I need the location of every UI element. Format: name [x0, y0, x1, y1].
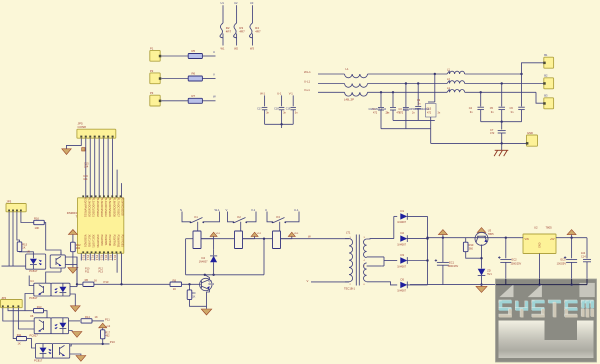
- wire: [228, 212, 234, 222]
- capacitor C14: [581, 252, 591, 262]
- wire: [76, 257, 78, 287]
- diode D4: [199, 249, 217, 275]
- svg-text:W3: W3: [250, 46, 254, 50]
- wire: [162, 55, 189, 57]
- wire: [281, 238, 350, 240]
- svg-text:PC817: PC817: [30, 334, 39, 338]
- capacitor EC1: [435, 259, 459, 268]
- svg-text:PC817: PC817: [29, 296, 38, 300]
- wire: [70, 343, 110, 345]
- svg-text:EC1: EC1: [449, 260, 455, 264]
- logo watermark: [496, 279, 597, 362]
- svg-text:LT1: LT1: [346, 231, 351, 235]
- wire: [367, 265, 382, 267]
- resistor R5: [188, 49, 202, 59]
- svg-text:P2: P2: [150, 69, 154, 73]
- wire: [368, 73, 448, 75]
- resistor R6: [83, 278, 97, 286]
- wire: [417, 84, 419, 106]
- node J28: [570, 283, 572, 285]
- svg-text:W-L1: W-L1: [304, 70, 311, 74]
- wire: [392, 110, 394, 120]
- wire: [20, 251, 34, 254]
- capacitor EC2: [498, 256, 521, 265]
- wire: [27, 339, 36, 348]
- wire: [243, 238, 255, 240]
- wire: [121, 183, 123, 198]
- power VD1: [210, 232, 221, 239]
- wire: [18, 308, 34, 329]
- wire: [98, 253, 100, 260]
- wire: [17, 212, 20, 242]
- svg-text:K2: K2: [237, 215, 241, 219]
- svg-text:R6: R6: [85, 278, 89, 282]
- svg-text:7805: 7805: [546, 225, 553, 229]
- wire: [571, 262, 573, 284]
- svg-text:U3: U3: [250, 1, 254, 5]
- svg-text:U-1: U-1: [277, 92, 282, 96]
- resistor R9: [187, 290, 196, 300]
- svg-text:C4: C4: [469, 106, 473, 110]
- svg-text:4R7: 4R7: [239, 30, 245, 34]
- optocoupler U6: [30, 314, 52, 338]
- resistor R16: [34, 216, 45, 229]
- svg-text:U3: U3: [488, 228, 492, 232]
- svg-text:1K: 1K: [192, 294, 195, 298]
- node J19: [426, 237, 428, 239]
- diode U6 LED: [51, 318, 69, 334]
- wire: [8, 308, 33, 311]
- wire: [89, 138, 91, 198]
- wire: [481, 245, 483, 269]
- wire: [571, 238, 573, 259]
- svg-text:C18: C18: [274, 108, 279, 111]
- wire: [381, 128, 431, 130]
- svg-text:1N4007: 1N4007: [397, 221, 406, 224]
- wire: [13, 308, 16, 339]
- svg-text:B2: B2: [544, 74, 548, 78]
- wire: [481, 121, 522, 123]
- svg-text:P1.1: P1.1: [86, 255, 90, 261]
- svg-text:U6: U6: [30, 314, 34, 318]
- wire: [44, 223, 61, 255]
- svg-text:100/25V: 100/25V: [557, 263, 567, 266]
- svg-text:+5V: +5V: [550, 238, 555, 241]
- wire: [243, 238, 273, 240]
- node J14: [520, 73, 522, 75]
- diode ZD: [478, 269, 493, 276]
- svg-text:1K: 1K: [94, 279, 97, 283]
- capacitor C7: [490, 128, 506, 135]
- wire: [162, 78, 189, 80]
- node clutter: [369, 108, 441, 115]
- svg-text:B1: B1: [544, 53, 548, 57]
- svg-text:P1.4/ADC4/SEG4: P1.4/ADC4/SEG4: [104, 197, 107, 217]
- wire: [480, 110, 482, 122]
- svg-text:1K: 1K: [95, 315, 98, 319]
- svg-text:P1.3: P1.3: [95, 255, 99, 261]
- wire: [263, 239, 265, 275]
- thermistor R4: [249, 1, 261, 50]
- optocoupler U4: [29, 279, 51, 300]
- ground: [62, 149, 72, 155]
- transistor U7b: [53, 344, 70, 359]
- wire: [408, 260, 428, 262]
- wire: [69, 330, 73, 333]
- svg-text:4R7: 4R7: [255, 30, 261, 34]
- svg-text:C7: C7: [490, 128, 494, 132]
- node J6: [212, 274, 214, 276]
- wire: [394, 215, 397, 217]
- node J28b: [570, 283, 572, 285]
- inductor L3: [447, 78, 465, 83]
- optocoupler U5: [26, 251, 46, 274]
- wire: [380, 110, 382, 129]
- wire: [189, 284, 191, 290]
- wire: [185, 239, 187, 275]
- wire: [67, 138, 82, 148]
- wire: [77, 283, 82, 285]
- wire: [281, 95, 283, 106]
- power VD2: [251, 232, 262, 239]
- wire: [203, 212, 219, 222]
- node J7: [263, 238, 265, 240]
- power VD3: [288, 232, 299, 239]
- relay coil K3: [273, 231, 281, 249]
- node J9: [380, 91, 382, 93]
- svg-text:+12: +12: [106, 324, 111, 328]
- wire: [442, 265, 444, 284]
- wire: [393, 119, 435, 121]
- svg-text:D4: D4: [202, 256, 206, 260]
- ground: [476, 285, 487, 293]
- svg-text:104: 104: [84, 166, 89, 169]
- wire: [281, 110, 283, 125]
- resistor R11: [17, 333, 27, 345]
- svg-text:R6: R6: [192, 72, 196, 76]
- connector JP3: [6, 199, 26, 212]
- transistor U3: [475, 228, 494, 245]
- resistor R14: [81, 315, 98, 323]
- svg-text:VSS/GND1: VSS/GND1: [83, 235, 86, 248]
- wire: [92, 320, 104, 322]
- wire: [318, 91, 345, 93]
- wire: [368, 91, 448, 93]
- wire: [190, 300, 207, 307]
- svg-text:360: 360: [469, 246, 474, 250]
- capacitor C16: [83, 175, 88, 181]
- wire: [292, 95, 294, 106]
- capacitor C2: [387, 108, 397, 115]
- wire: [203, 100, 216, 102]
- svg-text:1N4007: 1N4007: [199, 261, 208, 264]
- wire: [496, 284, 587, 286]
- svg-text:P2.0: P2.0: [99, 255, 103, 261]
- diode D1: [397, 209, 407, 224]
- capacitor C6: [510, 106, 525, 114]
- svg-text:W2: W2: [234, 46, 238, 50]
- wire: [501, 84, 503, 107]
- node J20: [426, 259, 428, 261]
- wire: [265, 123, 294, 125]
- capacitor C5: [490, 106, 505, 114]
- svg-text:P1.1/ADC1/SEG1: P1.1/ADC1/SEG1: [92, 197, 95, 217]
- wire: [246, 212, 256, 222]
- capacitor C4: [469, 106, 484, 114]
- wire: [72, 252, 74, 265]
- ground: [70, 306, 80, 312]
- inductor L1: [344, 67, 368, 101]
- svg-text:PC817: PC817: [34, 358, 43, 362]
- wire: [102, 339, 104, 344]
- wire: [383, 257, 385, 266]
- wire: [12, 212, 14, 266]
- node J12: [417, 82, 419, 84]
- svg-text:CON8: CON8: [78, 125, 87, 129]
- capacitor C17: [257, 107, 269, 114]
- op-amp U2: [523, 225, 556, 253]
- connector B3: [543, 94, 553, 109]
- wire: [505, 238, 507, 259]
- svg-text:P3.5/TIM1: P3.5/TIM1: [112, 235, 115, 247]
- wire: [408, 284, 428, 286]
- wire: [89, 253, 91, 260]
- ground: [72, 332, 82, 338]
- svg-text:W-1: W-1: [260, 92, 265, 96]
- svg-text:P3.3/INT1: P3.3/INT1: [104, 235, 107, 247]
- svg-text:P11: P11: [105, 318, 110, 322]
- wire: [44, 311, 48, 318]
- capacitor C3: [399, 108, 409, 115]
- power VCC2: [438, 230, 447, 238]
- svg-text:406C10PM04P840AC20: 406C10PM04P840AC20: [403, 108, 430, 111]
- wire: [197, 222, 199, 231]
- svg-text:R7: R7: [192, 94, 196, 98]
- svg-text:1000/16V: 1000/16V: [448, 265, 459, 268]
- svg-text:P2.2: P2.2: [108, 255, 112, 261]
- capacitor C19: [286, 107, 298, 114]
- node J23: [480, 257, 482, 259]
- svg-text:EC3: EC3: [560, 258, 566, 262]
- svg-text:C5: C5: [490, 106, 494, 110]
- wire: [408, 215, 428, 217]
- node J1: [76, 283, 78, 285]
- svg-text:1K: 1K: [22, 246, 25, 250]
- svg-text:N: N: [180, 208, 182, 212]
- inductor L2: [447, 69, 465, 74]
- wire: [94, 253, 96, 260]
- connector P1: [150, 46, 162, 61]
- wire: [46, 272, 61, 283]
- node J5: [204, 274, 206, 276]
- wire: [434, 74, 436, 102]
- wire: [281, 124, 283, 128]
- node J22: [442, 237, 444, 239]
- wire: [442, 238, 444, 262]
- wire: [318, 83, 345, 85]
- wire: [393, 216, 395, 238]
- resistor R7: [188, 94, 202, 104]
- wire: [281, 238, 292, 240]
- capacitor C1: [373, 108, 385, 115]
- power VCC3: [567, 230, 576, 238]
- wire: [382, 265, 384, 267]
- svg-text:472: 472: [427, 112, 432, 115]
- transistor Q4: [200, 278, 215, 290]
- svg-text:P3.0/RXD/SEG8: P3.0/RXD/SEG8: [121, 197, 124, 216]
- diode D3: [397, 253, 407, 268]
- svg-text:JP3: JP3: [6, 199, 11, 203]
- svg-text:P1.0: P1.0: [82, 255, 86, 261]
- svg-text:P2.3: P2.3: [113, 255, 117, 261]
- svg-text:472: 472: [397, 112, 402, 115]
- wire: [98, 138, 100, 198]
- svg-text:W1: W1: [221, 46, 225, 50]
- svg-text:P1.6/ADC6/SEG6: P1.6/ADC6/SEG6: [112, 197, 115, 217]
- wire: [427, 216, 429, 284]
- svg-text:U2: U2: [234, 1, 238, 5]
- svg-text:1K: 1K: [18, 341, 21, 345]
- ground: [68, 265, 78, 274]
- wire: [8, 212, 10, 266]
- wire: [586, 279, 588, 285]
- wire: [112, 138, 114, 198]
- node J27: [570, 237, 572, 239]
- resistor R12: [71, 242, 82, 252]
- wire: [586, 262, 588, 285]
- svg-text:R10: R10: [469, 243, 474, 247]
- wire: [480, 92, 482, 106]
- wire: [465, 73, 522, 75]
- svg-text:P13: P13: [99, 271, 104, 274]
- wire: [29, 276, 34, 286]
- svg-text:P3.6/WRB1: P3.6/WRB1: [117, 235, 120, 248]
- wire: [556, 237, 587, 239]
- connector JP5: [77, 122, 116, 139]
- wire: [264, 110, 266, 125]
- wire: [285, 212, 299, 222]
- relay coil K2: [235, 231, 243, 249]
- wire: [65, 264, 77, 266]
- capacitor C15: [84, 163, 89, 169]
- wire: [522, 237, 523, 239]
- wire: [481, 276, 483, 285]
- svg-text:RST/VPP21: RST/VPP21: [96, 235, 99, 249]
- wire: [405, 84, 407, 108]
- wire: [201, 238, 214, 240]
- svg-text:TEC1B-1: TEC1B-1: [344, 286, 356, 290]
- wire: [465, 91, 536, 93]
- power VCC: [68, 230, 77, 243]
- svg-text:P1.2/ADC2/SEG2: P1.2/ADC2/SEG2: [96, 197, 99, 217]
- wire: [430, 129, 432, 144]
- wire: [186, 274, 264, 276]
- wire: [103, 253, 105, 260]
- svg-text:7805: 7805: [488, 232, 494, 236]
- wire: [392, 92, 394, 107]
- node J24: [480, 283, 482, 285]
- connector GND: [526, 131, 538, 146]
- connector JP4: [1, 296, 23, 308]
- wire: [94, 138, 96, 198]
- svg-text:L4B_3P: L4B_3P: [344, 98, 354, 102]
- svg-text:D2: D2: [401, 231, 405, 235]
- node J16: [480, 91, 482, 93]
- node J3: [102, 343, 104, 345]
- diode D2: [397, 231, 407, 246]
- wire: [70, 294, 75, 306]
- wire: [521, 110, 523, 122]
- node pad: [82, 148, 85, 151]
- node P10: [85, 267, 90, 273]
- svg-text:1N4007: 1N4007: [397, 265, 406, 268]
- svg-text:P3.4/TIM0: P3.4/TIM0: [108, 235, 111, 247]
- wire: [65, 257, 77, 287]
- capacitor C18: [274, 107, 286, 114]
- inductor L4: [447, 87, 465, 92]
- svg-text:R5: R5: [192, 49, 196, 53]
- ground: [76, 356, 86, 362]
- relay switch K2: [233, 215, 248, 223]
- wire: [70, 286, 77, 288]
- svg-text:L1: L1: [346, 67, 350, 71]
- wire: [417, 109, 419, 120]
- node J2: [120, 283, 122, 285]
- svg-text:U1: U1: [221, 1, 225, 5]
- svg-text:C6: C6: [510, 106, 514, 110]
- wire: [522, 63, 544, 74]
- wire: [521, 74, 523, 107]
- svg-text:P11: P11: [85, 271, 90, 274]
- wire: [586, 238, 588, 259]
- wire: [85, 253, 87, 260]
- resistor R10: [463, 242, 474, 252]
- svg-text:V-1: V-1: [251, 208, 256, 212]
- wire: [431, 142, 527, 144]
- svg-text:VIN: VIN: [525, 238, 529, 241]
- node J21: [426, 237, 428, 239]
- wire: [279, 222, 281, 231]
- node J13: [434, 73, 436, 75]
- relay switch K3: [272, 215, 287, 223]
- svg-text:U2: U2: [534, 225, 538, 229]
- svg-text:D1: D1: [401, 209, 405, 213]
- svg-text:10K: 10K: [35, 226, 40, 230]
- svg-text:P1.2: P1.2: [90, 255, 94, 261]
- wire: [501, 110, 503, 122]
- wire: [408, 238, 428, 240]
- svg-text:C19: C19: [286, 108, 291, 111]
- svg-text:4R7: 4R7: [226, 30, 232, 34]
- wire: [207, 290, 210, 309]
- node J26: [538, 283, 540, 285]
- svg-text:PC817: PC817: [29, 269, 38, 273]
- svg-text:P1.3/ADC3/SEG3: P1.3/ADC3/SEG3: [100, 197, 103, 217]
- thermistor R2: [220, 1, 232, 50]
- svg-text:K1: K1: [194, 215, 198, 219]
- svg-text:X1/CLKIN1: X1/CLKIN1: [87, 235, 90, 248]
- svg-text:P1.0/ADC0/SEG0: P1.0/ADC0/SEG0: [87, 197, 90, 217]
- wire: [410, 284, 587, 286]
- svg-text:462: 462: [76, 246, 81, 250]
- wire: [186, 238, 193, 240]
- wire: [380, 92, 382, 107]
- wire: [240, 222, 242, 231]
- svg-text:472: 472: [373, 112, 378, 115]
- wire: [107, 138, 109, 198]
- wire: [213, 239, 215, 250]
- svg-text:W: W: [308, 234, 311, 238]
